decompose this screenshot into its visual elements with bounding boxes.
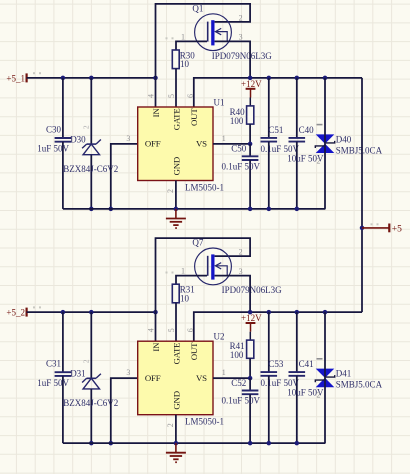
svg-text:SMBJ5.0CA: SMBJ5.0CA: [336, 145, 383, 155]
svg-text:GND: GND: [171, 157, 181, 175]
junction ground rail / OFF wire: [109, 207, 114, 212]
svg-text:Q7: Q7: [192, 238, 203, 248]
wire: OUT pin 6 to output rail: [194, 78, 362, 107]
svg-text:2: 2: [166, 189, 175, 193]
junction ground rail at C51: [267, 207, 272, 212]
svg-text:C51: C51: [268, 125, 283, 135]
wire/pin: VS pin 1: [213, 377, 250, 379]
svg-text:IN: IN: [151, 108, 161, 118]
junction ground rail at C53: [267, 441, 272, 446]
svg-text:C52: C52: [231, 378, 246, 388]
junction ground rail at C40: [295, 207, 300, 212]
svg-text:10: 10: [180, 59, 190, 69]
svg-text:1: 1: [181, 32, 185, 41]
junction output rail at C51: [267, 76, 272, 81]
svg-text:LM5050-1: LM5050-1: [185, 417, 224, 427]
svg-text:VS: VS: [196, 373, 207, 383]
op-amp U: ORing controller U1 LM5050-1: [138, 97, 225, 192]
svg-text:U2: U2: [214, 332, 225, 342]
svg-text:GATE: GATE: [171, 343, 181, 365]
wire: OFF pin to ground rail: [111, 378, 138, 443]
capacitor C53 0.1uF 50V: [261, 312, 300, 443]
pin name OUT (pin 6): [189, 342, 199, 360]
zener diode D31 BZX84J-C6V2: [63, 312, 118, 443]
svg-text:LM5050-1: LM5050-1: [185, 183, 224, 193]
pin name VS (pin 1): [196, 373, 207, 383]
junction ground rail / OFF wire: [109, 441, 114, 446]
junction VS node: [248, 142, 253, 147]
pin number 4: [147, 94, 156, 98]
junction on +5_1 rail at D30: [89, 76, 94, 81]
pin name GATE (pin 5): [171, 109, 181, 131]
svg-text:2: 2: [82, 359, 91, 363]
junction ground rail at D30: [89, 207, 94, 212]
resistor R41 100: [230, 340, 254, 360]
wire/pin: IN pin 4: [155, 312, 157, 341]
wire: OFF pin to ground rail: [111, 144, 138, 209]
pin name OFF (pin 3): [145, 139, 161, 149]
capacitor C50 0.1uF 50V: [222, 144, 261, 209]
junction output rail at C53: [267, 310, 272, 315]
pin number 4: [147, 328, 156, 332]
wire: OUT pin 6 to output rail: [194, 312, 362, 341]
svg-text:C30: C30: [46, 124, 62, 134]
pin number 1: [222, 134, 226, 143]
svg-text:+5_1: +5_1: [6, 73, 25, 83]
svg-text:0.1uF 50V: 0.1uF 50V: [261, 144, 300, 154]
junction output rail / source: [248, 310, 253, 315]
wire: R41 to VS pin: [249, 358, 251, 378]
pin name OUT (pin 6): [189, 108, 199, 126]
svg-text:C41: C41: [299, 359, 314, 369]
pin name OFF (pin 3): [145, 373, 161, 383]
svg-text:1: 1: [181, 267, 185, 276]
pin name IN (pin 4): [151, 108, 161, 118]
svg-text:2: 2: [239, 13, 243, 22]
junction on +5_2 rail at C31: [61, 310, 66, 315]
no-ERC markers: [33, 272, 174, 309]
svg-text:2: 2: [239, 248, 243, 257]
svg-text:OUT: OUT: [189, 108, 199, 126]
pin name GND (pin 2): [171, 157, 181, 175]
power port +5_1: [6, 73, 26, 83]
junction +5_1 rail / IN pin / drain loop: [153, 76, 158, 81]
wire: R40 to VS pin: [249, 124, 251, 144]
pin number 3: [126, 368, 130, 377]
pin number 6: [186, 328, 195, 332]
ground: [166, 443, 186, 463]
svg-text:+5: +5: [392, 224, 402, 234]
svg-text:C50: C50: [231, 144, 247, 154]
junction ground rail / GND pin: [174, 207, 179, 212]
wire: ground rail: [63, 442, 326, 444]
wire/pin: GND pin 2 to ground rail: [175, 415, 177, 443]
resistor R31 10: [172, 284, 195, 303]
svg-text:+5_2: +5_2: [6, 308, 25, 318]
svg-text:1uF 50V: 1uF 50V: [37, 144, 69, 154]
ground: [166, 209, 186, 229]
capacitor C51 0.1uF 50V: [261, 78, 300, 209]
wire: Q7 gate to R31: [176, 276, 207, 285]
pin number 5: [167, 94, 176, 98]
svg-text:IN: IN: [151, 342, 161, 352]
no-ERC markers: [33, 37, 174, 74]
wire: Q1 drain to +5_1 rail: [156, 4, 251, 78]
resistor R40 100: [230, 106, 254, 126]
TVS diode D41 SMBJ5.0CA: [315, 312, 382, 443]
wire/pin: GND pin 2 to ground rail: [175, 181, 177, 209]
svg-text:1: 1: [222, 134, 226, 143]
svg-text:6: 6: [186, 94, 195, 98]
wire: Q1 source to output rail: [215, 41, 251, 78]
junction ground rail at C52: [248, 441, 253, 446]
junction output bus / +5 port: [360, 226, 365, 231]
pin number 1: [222, 368, 226, 377]
junction output rail at D41: [323, 310, 328, 315]
svg-text:1: 1: [222, 368, 226, 377]
svg-text:D40: D40: [336, 134, 352, 144]
capacitor C30 1uF 50V: [37, 78, 71, 209]
svg-text:0.1uF 50V: 0.1uF 50V: [261, 378, 300, 388]
pin number 2: [166, 423, 175, 427]
power port +12V: [241, 313, 262, 340]
svg-text:3: 3: [126, 134, 130, 143]
wire: Q7 drain to +5_2 rail: [156, 238, 251, 312]
svg-text:OUT: OUT: [189, 342, 199, 360]
wire: output bus (right vertical): [361, 78, 363, 312]
junction output rail at D40: [323, 76, 328, 81]
svg-text:0.1uF 50V: 0.1uF 50V: [222, 396, 261, 406]
svg-text:1uF 50V: 1uF 50V: [37, 378, 69, 388]
svg-text:IPD079N06L3G: IPD079N06L3G: [212, 51, 272, 61]
pin name GND (pin 2): [171, 391, 181, 409]
wire: ground rail: [63, 208, 326, 210]
svg-text:OFF: OFF: [145, 373, 161, 383]
capacitor C52 0.1uF 50V: [222, 378, 261, 443]
svg-text:3: 3: [239, 33, 243, 42]
svg-text:+12V: +12V: [241, 79, 262, 89]
capacitor C41 10uF 50V: [287, 312, 324, 443]
pin number 5: [167, 328, 176, 332]
svg-text:6: 6: [186, 328, 195, 332]
svg-text:U1: U1: [214, 97, 225, 107]
power port +12V: [241, 79, 262, 106]
wire: +5_2 rail: [27, 311, 156, 313]
svg-text:GATE: GATE: [171, 109, 181, 131]
svg-text:5: 5: [167, 94, 176, 98]
wire: +5_1 rail: [27, 77, 156, 79]
svg-text:C40: C40: [299, 125, 315, 135]
pin name GATE (pin 5): [171, 343, 181, 365]
svg-text:VS: VS: [196, 139, 207, 149]
pin name IN (pin 4): [151, 342, 161, 352]
junction +5_2 rail / IN pin / drain loop: [153, 310, 158, 315]
wire: R30 to GATE pin: [175, 69, 177, 107]
capacitor C40 10uF 50V: [287, 78, 324, 209]
svg-text:3: 3: [126, 368, 130, 377]
junction output rail / source: [248, 76, 253, 81]
junction on +5_1 rail at C30: [61, 76, 66, 81]
wire: Q7 source to output rail: [215, 276, 251, 313]
TVS diode D40 SMBJ5.0CA: [315, 78, 382, 209]
svg-text:D31: D31: [70, 369, 86, 379]
zener diode D30 BZX84J-C6V2: [63, 78, 118, 209]
wire: R31 to GATE pin: [175, 303, 177, 341]
svg-text:D30: D30: [70, 134, 86, 144]
transistor Q7 (IPD079N06L3G): [181, 238, 282, 296]
svg-text:D41: D41: [336, 369, 352, 379]
transistor Q1 (IPD079N06L3G): [181, 3, 272, 61]
capacitor C31 1uF 50V: [37, 312, 71, 443]
junction on +5_2 rail at D31: [89, 310, 94, 315]
pin number 3: [126, 134, 130, 143]
pin number 6: [186, 94, 195, 98]
svg-text:OFF: OFF: [145, 139, 161, 149]
svg-text:10: 10: [180, 293, 190, 303]
svg-text:Q1: Q1: [192, 3, 203, 13]
svg-text:4: 4: [147, 328, 156, 332]
svg-text:C31: C31: [46, 359, 61, 369]
svg-text:GND: GND: [171, 391, 181, 409]
junction VS node: [248, 376, 253, 381]
svg-text:SMBJ5.0CA: SMBJ5.0CA: [336, 380, 383, 390]
junction ground rail / GND pin: [174, 441, 179, 446]
wire: Q1 gate to R30: [176, 41, 207, 50]
svg-text:5: 5: [167, 328, 176, 332]
svg-text:0.1uF 50V: 0.1uF 50V: [222, 161, 261, 171]
no-ERC marker at +5: [371, 223, 379, 225]
junction output rail at C41: [295, 310, 300, 315]
op-amp U: ORing controller U2 LM5050-1: [138, 332, 225, 427]
svg-text:C53: C53: [268, 359, 284, 369]
junction ground rail at D31: [89, 441, 94, 446]
svg-text:100: 100: [230, 116, 244, 126]
svg-text:3: 3: [239, 267, 243, 276]
junction ground rail at C50: [248, 207, 253, 212]
svg-text:2: 2: [166, 423, 175, 427]
power port +5: [362, 224, 402, 235]
power port +5_2: [6, 308, 26, 318]
wire/pin: VS pin 1: [213, 143, 250, 145]
pin number 2: [166, 189, 175, 193]
svg-text:+12V: +12V: [241, 313, 262, 323]
pin name VS (pin 1): [196, 139, 207, 149]
svg-text:2: 2: [317, 391, 321, 400]
svg-text:2: 2: [317, 157, 321, 166]
junction ground rail at C41: [295, 441, 300, 446]
resistor R30 10: [172, 50, 195, 69]
junction output rail at C40: [295, 76, 300, 81]
svg-text:2: 2: [82, 125, 91, 129]
svg-text:4: 4: [147, 94, 156, 98]
svg-text:100: 100: [230, 350, 244, 360]
wire/pin: IN pin 4: [155, 78, 157, 107]
svg-text:IPD079N06L3G: IPD079N06L3G: [222, 285, 282, 295]
